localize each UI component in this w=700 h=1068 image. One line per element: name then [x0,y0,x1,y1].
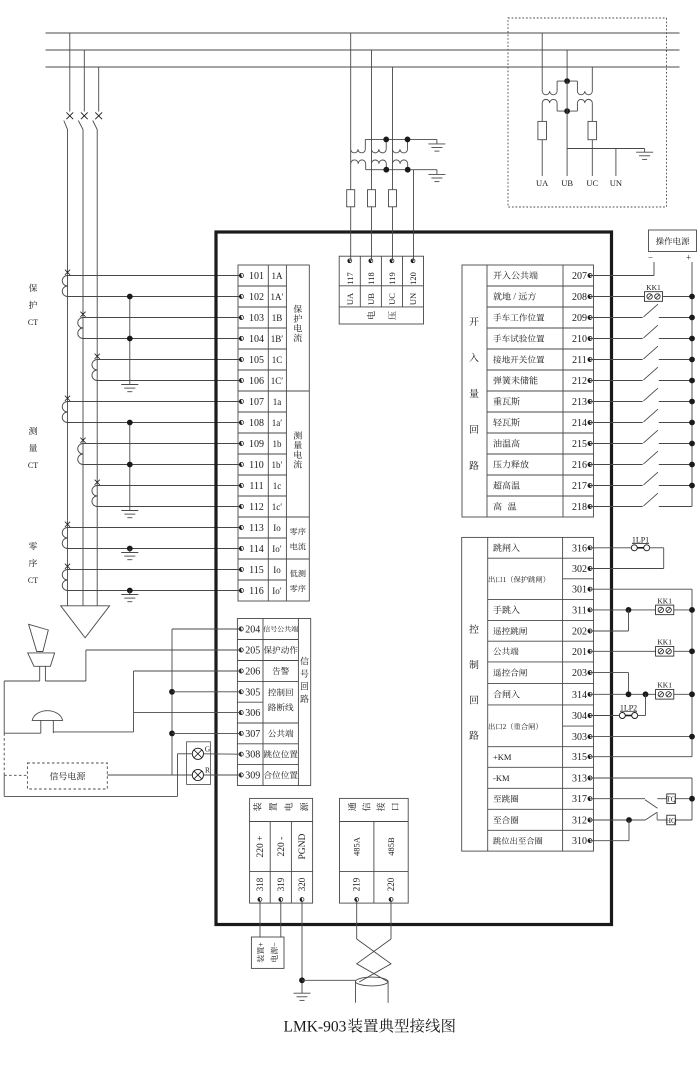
PT example dashed box [508,18,667,207]
svg-text:116: 116 [249,586,264,597]
svg-text:2: 2 [503,722,507,731]
svg-text:1B′: 1B′ [271,334,284,344]
terminal 212 [572,376,592,387]
svg-text:1b′: 1b′ [272,460,283,470]
buzzer mouth [28,653,55,666]
terminal 210 [572,334,592,345]
svg-text:212: 212 [572,376,587,387]
disconnect switch QS phase B [78,50,87,606]
row label 311 [493,606,520,614]
node [626,817,632,823]
terminal 119 [387,259,397,285]
terminal 315 [572,752,592,763]
terminal 103 [239,313,282,324]
row label 216 [493,460,528,468]
label [345,292,355,305]
contact 213 [644,388,658,401]
svg-text:R: R [205,766,210,775]
wire [638,694,646,715]
svg-text:−: − [270,942,279,947]
terminal 308 [239,750,261,761]
node [643,691,649,697]
wire UA out [541,140,543,176]
lamp R [192,766,210,781]
wire PT phase C [392,67,394,149]
label minus [648,253,653,263]
bell leads [4,720,133,733]
terminal 312 [572,816,592,827]
svg-text:UC: UC [387,293,397,305]
svg-text:101: 101 [249,271,264,282]
buzzer horn [29,624,49,651]
wire UB drop [566,50,568,81]
PT primary winding C [393,139,408,153]
wire [659,359,692,361]
svg-text:1: 1 [503,575,507,584]
zero-sequence CT 1 [62,522,70,549]
wire [83,443,241,445]
lamp G [192,745,210,760]
label [352,836,362,856]
twisted pair [357,939,391,982]
wire [590,464,643,466]
row label 314 [493,690,519,698]
svg-text:102: 102 [249,292,264,303]
control block [462,537,594,851]
svg-text:UA: UA [536,178,549,188]
switch KK1 (311) [656,596,674,614]
terminal 117 [345,259,355,285]
node [689,336,695,342]
row label 310 [493,837,542,845]
svg-text:306: 306 [245,708,260,719]
node [169,731,175,737]
switch KK1 (208) [644,283,662,301]
svg-text:317: 317 [572,794,587,805]
svg-text:214: 214 [572,418,587,429]
fuse FU UA [538,121,547,139]
svg-text:1B: 1B [272,313,283,323]
wire 220 lead [390,902,392,940]
terminal 301 [572,585,592,596]
row label 316 [493,543,520,551]
wire 310 [590,820,629,841]
label operating power [656,237,689,245]
svg-text:/: / [513,292,516,302]
svg-text:PGND: PGND [298,833,308,859]
node [689,648,695,654]
label UN [610,178,622,188]
binary input bus from plus [691,262,693,507]
wire [659,422,692,424]
svg-text:LMK-903: LMK-903 [284,1018,347,1035]
wire 319 lead [280,902,282,938]
wire 203 [590,673,629,695]
svg-text:310: 310 [572,836,587,847]
svg-text:118: 118 [366,272,376,284]
terminal 302 [572,564,592,575]
wire [68,590,242,592]
feeder arrow [61,606,110,638]
svg-text:113: 113 [249,523,264,534]
svg-text:1C′: 1C′ [271,376,284,386]
wire [675,819,692,821]
contact 216 [644,451,658,464]
ground [121,591,138,602]
group label measuring current [294,431,302,468]
svg-text:209: 209 [572,313,587,324]
PT primary winding B [372,139,387,152]
row label 217 [493,481,520,489]
wire [657,819,667,821]
device main box [216,232,612,925]
PT secondary winding C [393,149,408,170]
wire [663,296,692,298]
svg-text:211: 211 [572,355,587,366]
terminal 209 [572,313,592,324]
contact 211 [644,346,658,359]
wire [83,317,241,319]
svg-text:1a′: 1a′ [272,418,282,428]
node [127,462,133,468]
wire left rail dashed [3,733,5,775]
svg-text:Io′: Io′ [272,586,281,596]
wire UC out [591,140,593,176]
wire [590,338,643,340]
svg-text:UN: UN [408,293,418,305]
ground [428,139,445,151]
comm block [340,798,409,903]
terminal 313 [572,774,592,785]
label [387,293,397,305]
bell [32,711,62,721]
row label 208 [493,292,536,302]
svg-text:107: 107 [249,397,264,408]
wire [659,443,692,445]
PT secondary winding B [372,149,387,170]
label plus [686,253,691,263]
row label 202 [493,627,527,635]
wire [590,736,692,738]
svg-text:305: 305 [245,687,260,698]
node [127,420,133,426]
wire [83,464,241,466]
terminal 303 [572,732,592,743]
node [689,420,695,426]
fuse FU [389,190,397,207]
node [564,78,570,84]
wire [590,609,656,611]
wire [675,798,692,800]
svg-text:108: 108 [249,418,264,429]
svg-text:1C: 1C [272,355,283,365]
wire [590,693,656,695]
svg-text:1A: 1A [272,271,284,281]
bus line L1 [46,32,680,34]
wire [590,506,643,508]
wire [83,338,241,340]
label battery [257,942,280,963]
svg-text:KK1: KK1 [657,596,672,605]
wire [68,569,242,571]
svg-text:319: 319 [276,877,286,891]
wire UC drop [591,67,593,91]
measuring CT phase B [78,438,86,465]
svg-text:220: 220 [386,877,396,891]
svg-text:1c′: 1c′ [272,502,282,512]
svg-text:120: 120 [408,272,418,285]
wire [657,798,667,800]
terminal 204 [239,625,261,636]
row label 312 [493,816,518,824]
wire [590,380,643,382]
label UB [561,178,573,188]
svg-text:1a: 1a [273,397,282,407]
wire left rail [3,681,5,796]
svg-text:215: 215 [572,439,587,450]
CT terminal block [238,265,309,601]
wire UA drop [541,33,543,91]
node [689,462,695,468]
terminal 120 [408,259,418,285]
svg-text:UA: UA [345,292,355,305]
wire [590,317,643,319]
wire 202 up [590,610,629,631]
wire [590,401,643,403]
wire supply to lamps [107,774,192,776]
lamp box [187,742,211,785]
ground [636,149,653,160]
ground [294,993,311,1000]
node [689,294,695,300]
zero-sequence CT 2 [62,564,70,591]
wire UN lead [413,170,415,261]
svg-text:303: 303 [572,732,587,743]
terminal 216 [572,460,592,471]
wire [590,589,692,757]
wire [590,819,645,821]
label protection action [264,646,298,654]
terminal 106 [239,376,283,387]
label signal power [50,772,85,780]
label UA [536,178,549,188]
terminal 217 [572,481,592,492]
node [383,167,389,173]
wire 307 [172,732,241,734]
terminal 310 [572,836,592,847]
link 1LP1 [631,536,649,551]
row label 203 [493,669,527,677]
wire [97,506,241,508]
wire [129,423,131,507]
wire dashed to signal supply [4,774,27,776]
wire [590,485,643,487]
label [348,803,356,811]
wire [590,756,692,758]
terminal 111 [239,481,281,492]
bus line L2 [46,49,680,51]
svg-text:210: 210 [572,334,587,345]
switch KK1 (201) [656,638,674,656]
aux contact blade a [645,800,658,809]
node [127,546,133,552]
terminal 113 [239,523,281,534]
contact 209 [644,304,658,317]
wire [68,527,242,529]
node [689,796,695,802]
node [405,167,411,173]
wire 318 lead [259,902,261,938]
terminal 116 [239,586,282,597]
wire [590,443,643,445]
wire lamp G left [4,754,192,797]
row label 201 [493,647,518,655]
row label 317 [493,795,518,803]
disconnect switch QS phase A [64,33,73,606]
wire [97,380,241,382]
svg-text:208: 208 [572,292,587,303]
row label 212 [493,376,537,384]
svg-text:304: 304 [572,711,587,722]
label control loop [469,624,478,739]
svg-text:316: 316 [572,543,587,554]
fuse FU [347,190,355,207]
wire [590,548,664,569]
station battery box [251,937,284,968]
svg-text:UB: UB [561,178,573,188]
label alarm [272,667,289,675]
svg-text:318: 318 [255,877,265,891]
svg-text:UB: UB [366,293,376,305]
terminal 118 [366,259,376,285]
svg-text:320: 320 [297,877,307,891]
ground [121,507,138,518]
node [689,357,695,363]
label [256,836,266,858]
signal terminal block [237,619,310,786]
node [169,689,175,695]
svg-text:219: 219 [352,877,362,891]
svg-text:307: 307 [245,729,260,740]
svg-text:UN: UN [610,178,622,188]
row label 211 [493,355,544,363]
svg-text:CT: CT [28,461,38,470]
wire [674,693,692,695]
fuse FU UC [588,121,597,139]
device power block [250,798,313,903]
PT primary neutral wire [365,138,437,140]
svg-text:206: 206 [245,667,260,678]
svg-text:117: 117 [345,272,355,284]
contact 217 [644,472,658,485]
wire UA secondary [541,103,543,121]
terminal 208 [572,292,592,303]
row label 304 [489,722,538,731]
terminal 215 [572,439,592,450]
svg-text:109: 109 [249,439,264,450]
node [689,691,695,697]
wire neutral [567,148,645,150]
wire [590,798,645,800]
svg-text:312: 312 [572,816,587,827]
svg-text:110: 110 [249,460,264,471]
svg-text:314: 314 [572,690,587,701]
svg-text:217: 217 [572,481,587,492]
wire UB out [566,111,568,176]
svg-text:308: 308 [245,750,260,761]
wire [371,164,373,190]
node [127,336,133,342]
wire shield tie [302,979,356,981]
wire 219 lead [356,902,358,940]
wire 205 to buzzer [86,650,242,681]
ground [428,170,445,182]
terminal 207 [572,271,592,282]
terminal 305 [239,687,261,698]
label [362,803,370,811]
svg-text:111: 111 [249,481,263,492]
wire UB through [566,81,568,111]
label UC [586,178,598,188]
svg-text:1b: 1b [273,439,283,449]
svg-text:485B: 485B [386,837,396,856]
label [408,293,418,305]
svg-text:302: 302 [572,564,587,575]
label [300,803,308,811]
switch KK1 (314) [656,681,674,699]
svg-text:+KM: +KM [493,752,512,762]
terminal 319 [276,877,286,902]
wire 206 [134,671,242,732]
row label 313 [493,773,510,783]
wire PT phase A [350,33,352,149]
PT secondary winding A [351,149,366,170]
node [689,734,695,740]
terminal 115 [239,565,281,576]
measuring CT phase A [62,396,70,423]
wire [659,485,692,487]
binary input block [462,265,594,517]
row label 302 [489,575,546,584]
wire 204 common [172,629,241,775]
terminal 311 [572,605,592,616]
buzzer leads [4,666,86,681]
svg-text:1A′: 1A′ [271,292,284,302]
signal power box [27,763,107,789]
wire [350,207,352,261]
terminal 203 [572,668,592,679]
wire [68,275,242,277]
terminal 213 [572,397,592,408]
operating power box [649,230,697,252]
disconnect switch QS phase C [93,67,102,606]
protection CT phase C [92,354,100,381]
row label 210 [493,334,544,342]
wire UN out [615,149,617,177]
label [376,803,384,811]
wire [659,506,692,508]
wire [590,359,643,361]
terminal 205 [239,646,261,657]
cable shield [356,977,389,1003]
terminal 114 [239,544,282,555]
terminal 218 [572,502,592,513]
wire [590,650,656,652]
row label 315 [493,752,512,762]
wire [392,207,394,261]
svg-text:220 +: 220 + [256,836,266,858]
terminal 316 [572,543,592,554]
